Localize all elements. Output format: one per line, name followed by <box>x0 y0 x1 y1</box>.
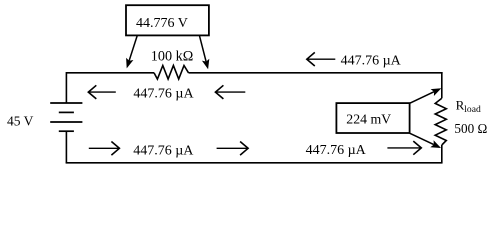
current arrow bottom C (right direction) <box>387 141 421 155</box>
svg-text:447.76 µA: 447.76 µA <box>133 143 194 158</box>
wire top-left segment <box>66 72 154 74</box>
voltmeter reading box 44.776 V <box>126 5 209 35</box>
battery B1 plate 3 long <box>50 121 82 123</box>
battery B1 plate 1 long <box>50 102 82 104</box>
battery B1 plate 4 short <box>59 130 74 132</box>
pointer arrow from 44.776 V box to right resistor terminal <box>199 35 209 69</box>
svg-text:100 kΩ: 100 kΩ <box>151 49 193 65</box>
current arrow bottom A (right direction) <box>89 142 120 156</box>
wire bottom <box>66 162 443 164</box>
svg-text:447.76 µA: 447.76 µA <box>341 53 402 68</box>
current arrow bottom B (right direction) <box>217 142 249 156</box>
wire left vertical bottom (battery - lead) <box>65 131 67 163</box>
wire right vertical top <box>441 72 443 98</box>
svg-text:500 Ω: 500 Ω <box>454 121 487 136</box>
pointer arrow from 44.776 V box to left resistor terminal <box>126 35 137 68</box>
svg-text:447.76 µA: 447.76 µA <box>133 87 194 102</box>
current arrow mid-left A (left direction) <box>88 85 116 99</box>
battery B1 plate 2 short <box>59 111 74 113</box>
wire top-right segment <box>189 72 443 74</box>
svg-text:44.776 V: 44.776 V <box>136 16 188 31</box>
voltmeter reading box 224 mV <box>336 103 409 133</box>
wire right vertical bottom <box>441 145 443 163</box>
wire left vertical top (battery + lead) <box>65 72 67 103</box>
pointer arrow from 224 mV box to bottom of Rload <box>410 133 441 148</box>
current arrow mid-left B (left direction) <box>215 85 245 99</box>
resistor Rload zigzag <box>435 98 446 145</box>
resistor R1 100 kOhm zigzag <box>154 66 189 80</box>
svg-text:224 mV: 224 mV <box>346 112 391 127</box>
pointer arrow from 224 mV box to top of Rload <box>410 88 442 103</box>
current arrow top-right (left direction) <box>307 52 336 66</box>
svg-text:45 V: 45 V <box>7 113 34 128</box>
svg-text:447.76 µA: 447.76 µA <box>306 143 367 158</box>
